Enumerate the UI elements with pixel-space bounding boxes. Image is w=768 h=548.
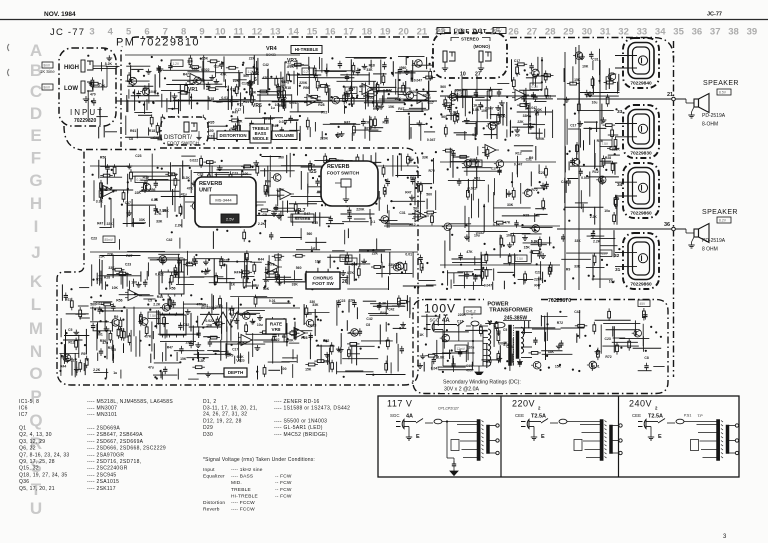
svg-text:C17: C17 — [242, 82, 248, 86]
svg-text:2.2K: 2.2K — [175, 224, 183, 228]
svg-text:31: 31 — [600, 27, 611, 38]
svg-text:10K: 10K — [481, 109, 488, 113]
svg-text:15K: 15K — [305, 368, 312, 372]
svg-text:560: 560 — [413, 207, 419, 211]
svg-text:0.047: 0.047 — [265, 117, 274, 121]
svg-text:R44: R44 — [373, 107, 379, 111]
svg-text:-- FCW: -- FCW — [275, 474, 292, 480]
svg-text:33K: 33K — [507, 203, 514, 207]
svg-text:0.2V: 0.2V — [457, 92, 464, 96]
svg-text:C23: C23 — [208, 134, 214, 138]
svg-text:C42: C42 — [263, 63, 269, 67]
svg-text:C17: C17 — [570, 123, 576, 127]
svg-text:R61: R61 — [474, 176, 480, 180]
svg-text:R47: R47 — [229, 308, 235, 312]
svg-text:R28: R28 — [523, 213, 529, 217]
svg-text:220K: 220K — [320, 136, 329, 140]
svg-text:45V: 45V — [347, 89, 354, 93]
svg-text:Distortion: Distortion — [203, 500, 225, 506]
svg-text:C5: C5 — [148, 298, 152, 302]
svg-text:32: 32 — [618, 27, 629, 38]
svg-text:---- GL-5AR1 (LED): ---- GL-5AR1 (LED) — [274, 425, 323, 431]
svg-text:L: L — [31, 295, 41, 314]
svg-text:560: 560 — [306, 312, 312, 316]
svg-text:---- 2SC945: ---- 2SC945 — [87, 472, 116, 478]
svg-text:100: 100 — [264, 279, 270, 283]
svg-text:INPUT: INPUT — [70, 108, 104, 117]
svg-text:22K: 22K — [324, 359, 331, 363]
svg-text:2.2K: 2.2K — [258, 222, 266, 226]
svg-text:R9: R9 — [515, 134, 519, 138]
svg-text:0.01: 0.01 — [269, 299, 276, 303]
svg-text:4.7K: 4.7K — [347, 271, 355, 275]
svg-text:-- FCW: -- FCW — [275, 493, 292, 499]
svg-text:PD-2519A: PD-2519A — [702, 113, 726, 119]
svg-text:CHORUS: CHORUS — [313, 275, 333, 280]
svg-text:4A: 4A — [406, 413, 413, 419]
svg-text:7.5V: 7.5V — [602, 142, 609, 146]
svg-text:Q6, 22: Q6, 22 — [19, 446, 36, 452]
svg-text:C42: C42 — [166, 238, 172, 242]
svg-text:10u: 10u — [469, 345, 475, 349]
svg-text:20: 20 — [398, 27, 409, 38]
svg-text:22K: 22K — [395, 97, 402, 101]
svg-text:---- 1kHz sine: ---- 1kHz sine — [231, 467, 263, 473]
svg-text:12mV: 12mV — [457, 347, 466, 351]
svg-text:4: 4 — [108, 27, 114, 38]
svg-text:K: K — [30, 272, 43, 291]
svg-text:R72: R72 — [323, 339, 329, 343]
svg-text:DISTORTION: DISTORTION — [220, 133, 247, 138]
svg-text:MS-3444: MS-3444 — [215, 198, 232, 203]
svg-text:R56: R56 — [169, 287, 175, 291]
svg-text:15K: 15K — [574, 78, 581, 82]
svg-text:400P: 400P — [466, 369, 475, 373]
svg-text:10K: 10K — [315, 259, 322, 263]
svg-text:R44: R44 — [60, 365, 66, 369]
svg-text:R56: R56 — [303, 86, 309, 90]
svg-text:15K: 15K — [236, 120, 243, 124]
svg-text:Q1: Q1 — [19, 426, 26, 432]
svg-text:---- FCCW: ---- FCCW — [231, 500, 255, 506]
svg-text:100: 100 — [208, 129, 214, 133]
svg-text:2.2K: 2.2K — [593, 239, 601, 243]
svg-text:C42: C42 — [574, 310, 580, 314]
svg-text:C23: C23 — [91, 237, 97, 241]
svg-text:15: 15 — [307, 27, 318, 38]
svg-text:M: M — [29, 319, 43, 338]
svg-text:R47: R47 — [167, 346, 173, 350]
svg-text:33: 33 — [637, 27, 648, 38]
svg-text:C42: C42 — [101, 188, 107, 192]
svg-text:33K: 33K — [156, 219, 163, 223]
svg-text:MIDDLE: MIDDLE — [252, 136, 268, 141]
svg-text:R56: R56 — [100, 156, 106, 160]
svg-text:---- M4C52 (BRIDGE): ---- M4C52 (BRIDGE) — [274, 432, 328, 438]
svg-text:---- 2SD667, 2SD669A: ---- 2SD667, 2SD669A — [87, 439, 144, 445]
svg-text:6: 6 — [254, 77, 257, 83]
svg-text:100K: 100K — [536, 137, 545, 141]
svg-text:R28: R28 — [104, 275, 110, 279]
svg-text:A: A — [30, 41, 42, 60]
svg-text:70229830: 70229830 — [630, 151, 652, 157]
svg-text:47K: 47K — [187, 186, 194, 190]
svg-text:3: 3 — [89, 27, 94, 38]
svg-text:C23: C23 — [230, 88, 236, 92]
svg-text:8-OHM: 8-OHM — [702, 122, 718, 128]
svg-text:HIGH: HIGH — [64, 65, 79, 71]
svg-text:100: 100 — [243, 172, 249, 176]
svg-text:10K: 10K — [506, 234, 513, 238]
svg-text:26: 26 — [342, 279, 348, 285]
svg-text:C5: C5 — [503, 328, 507, 332]
svg-text:1K: 1K — [419, 333, 424, 337]
svg-text:R72: R72 — [386, 88, 392, 92]
svg-text:---- 2SD666, 2SD668, 2SC2229: ---- 2SD666, 2SD668, 2SC2229 — [87, 446, 166, 452]
svg-text:0.022: 0.022 — [96, 302, 105, 306]
svg-text:FOOT SW: FOOT SW — [312, 281, 334, 286]
svg-text:7.5V: 7.5V — [150, 314, 157, 318]
svg-text:220K: 220K — [286, 339, 295, 343]
svg-text:C23: C23 — [339, 299, 345, 303]
svg-text:2.2K: 2.2K — [450, 111, 458, 115]
svg-text:RATE: RATE — [270, 321, 282, 326]
svg-text:33K: 33K — [108, 266, 115, 270]
svg-text:---- 2SK117: ---- 2SK117 — [87, 486, 116, 492]
svg-text:30: 30 — [582, 27, 593, 38]
svg-text:100K: 100K — [498, 114, 507, 118]
svg-text:-- FCW: -- FCW — [275, 480, 292, 486]
svg-text:R28: R28 — [301, 336, 307, 340]
svg-text:R72: R72 — [96, 277, 102, 281]
svg-text:R56: R56 — [265, 180, 271, 184]
svg-text:8 OHM: 8 OHM — [702, 247, 718, 253]
svg-text:1u: 1u — [113, 371, 117, 375]
svg-text:R47: R47 — [232, 110, 238, 114]
svg-text:STEREO: STEREO — [461, 37, 480, 42]
svg-text:22K: 22K — [135, 191, 142, 195]
svg-text:PM 70229810: PM 70229810 — [116, 37, 200, 49]
svg-text:34: 34 — [617, 182, 623, 188]
svg-text:21: 21 — [667, 92, 673, 98]
svg-text:0.022: 0.022 — [279, 120, 288, 124]
svg-text:3.3K: 3.3K — [274, 258, 282, 262]
svg-text:TRANSFORMER: TRANSFORMER — [489, 308, 533, 314]
svg-text:I: I — [34, 217, 39, 236]
svg-text:0.022: 0.022 — [201, 68, 210, 72]
svg-text:R9: R9 — [566, 268, 570, 272]
svg-text:R9: R9 — [81, 352, 85, 356]
svg-text:P.S1: P.S1 — [684, 414, 691, 418]
svg-text:30V x 2 @2.0A: 30V x 2 @2.0A — [444, 387, 480, 393]
svg-text:10: 10 — [460, 72, 466, 78]
svg-text:FOOT SWITCH: FOOT SWITCH — [327, 171, 360, 176]
svg-text:4.7K: 4.7K — [154, 212, 162, 216]
svg-text:---- MN3101: ---- MN3101 — [87, 412, 117, 418]
svg-text:REVERB: REVERB — [199, 181, 222, 187]
svg-text:C17: C17 — [125, 201, 131, 205]
svg-text:22K: 22K — [107, 252, 114, 256]
svg-text:R28: R28 — [605, 156, 611, 160]
svg-text:R72: R72 — [557, 321, 563, 325]
svg-text:R9: R9 — [535, 112, 539, 116]
svg-text:R12: R12 — [592, 170, 598, 174]
svg-text:R47: R47 — [534, 283, 540, 287]
svg-text:T.P: T.P — [487, 320, 493, 324]
svg-text:70229820: 70229820 — [74, 118, 96, 124]
svg-text:R35: R35 — [410, 176, 416, 180]
svg-text:C17: C17 — [232, 347, 238, 351]
svg-text:R35: R35 — [208, 121, 214, 125]
svg-text:C42: C42 — [561, 180, 567, 184]
svg-text:47u: 47u — [181, 192, 187, 196]
svg-text:*Signal Voltage (rms) Taken Un: *Signal Voltage (rms) Taken Under Condit… — [203, 457, 315, 463]
svg-text:10K: 10K — [582, 64, 589, 68]
svg-text:22K: 22K — [249, 57, 256, 61]
svg-text:HI-TREBLE: HI-TREBLE — [231, 493, 258, 499]
svg-text:47K: 47K — [504, 220, 511, 224]
svg-text:R44: R44 — [272, 124, 278, 128]
svg-text:35: 35 — [614, 196, 620, 202]
svg-text:R47: R47 — [234, 271, 240, 275]
svg-text:0.047: 0.047 — [484, 284, 493, 288]
svg-text:47u: 47u — [253, 284, 259, 288]
svg-text:---- S5500 or 1N4003: ---- S5500 or 1N4003 — [274, 418, 327, 424]
svg-text:LOW: LOW — [64, 86, 78, 92]
svg-text:0.022: 0.022 — [468, 187, 477, 191]
svg-text:33K: 33K — [139, 218, 146, 222]
svg-text:C23: C23 — [197, 173, 203, 177]
svg-text:U: U — [30, 499, 42, 518]
svg-text:560: 560 — [475, 274, 481, 278]
svg-text:15K: 15K — [185, 341, 192, 345]
svg-text:31: 31 — [615, 267, 621, 273]
svg-text:D29: D29 — [203, 425, 213, 431]
svg-text:C8: C8 — [129, 137, 133, 141]
svg-text:25: 25 — [311, 169, 317, 175]
svg-text:PD-2519A: PD-2519A — [702, 238, 726, 244]
svg-text:1u: 1u — [311, 246, 315, 250]
svg-text:24, 26, 27, 31, 32: 24, 26, 27, 31, 32 — [203, 411, 247, 417]
svg-text:560: 560 — [401, 66, 407, 70]
svg-text:HI-TREBLE: HI-TREBLE — [295, 47, 318, 52]
svg-text:IC6: IC6 — [19, 405, 28, 411]
svg-text:---- 2SC2240GR: ---- 2SC2240GR — [87, 466, 128, 472]
svg-text:1.2V: 1.2V — [347, 260, 354, 264]
svg-text:117 V: 117 V — [387, 399, 412, 409]
svg-text:0.047: 0.047 — [581, 176, 590, 180]
svg-text:Secondary Winding Ratings (DC): Secondary Winding Ratings (DC): — [443, 380, 521, 386]
svg-text:C17: C17 — [491, 166, 497, 170]
svg-text:560: 560 — [90, 303, 96, 307]
svg-text:10u: 10u — [368, 96, 374, 100]
svg-text:10u: 10u — [604, 209, 610, 213]
svg-text:H: H — [30, 194, 42, 213]
svg-text:22K: 22K — [107, 222, 114, 226]
svg-text:N: N — [30, 342, 42, 361]
svg-text:34: 34 — [655, 27, 666, 38]
svg-text:C19: C19 — [466, 364, 472, 368]
svg-text:C8: C8 — [365, 121, 369, 125]
svg-text:R56: R56 — [100, 339, 106, 343]
svg-text:NOV. 1984: NOV. 1984 — [44, 11, 76, 18]
svg-text:R72: R72 — [65, 298, 71, 302]
svg-text:18: 18 — [362, 27, 373, 38]
svg-text:CP1,CP2/127: CP1,CP2/127 — [438, 406, 459, 410]
svg-text:Q9, 17, 25, 28: Q9, 17, 25, 28 — [19, 459, 55, 465]
svg-text:45V: 45V — [472, 162, 479, 166]
svg-text:0.022: 0.022 — [190, 158, 199, 162]
svg-text:0.01: 0.01 — [221, 96, 228, 100]
svg-text:1K: 1K — [473, 104, 478, 108]
svg-text:R56: R56 — [116, 298, 122, 302]
svg-text:DEPTH: DEPTH — [228, 370, 244, 375]
svg-text:LINE OUT: LINE OUT — [454, 29, 487, 35]
svg-text:330: 330 — [187, 60, 193, 64]
svg-text:36: 36 — [692, 27, 703, 38]
svg-text:1K: 1K — [503, 341, 508, 345]
svg-text:0.047: 0.047 — [529, 106, 538, 110]
svg-text:50KB: 50KB — [266, 52, 276, 57]
svg-text:8.5V: 8.5V — [719, 91, 727, 95]
svg-text:19: 19 — [380, 27, 391, 38]
svg-text:C23: C23 — [135, 154, 141, 158]
svg-text:100: 100 — [192, 67, 198, 71]
svg-text:E: E — [541, 434, 545, 440]
svg-text:R72: R72 — [321, 111, 327, 115]
svg-text:---- 2SD716, 2SD718,: ---- 2SD716, 2SD718, — [87, 459, 141, 465]
svg-text:---- BASS: ---- BASS — [231, 474, 253, 480]
svg-text:470: 470 — [263, 76, 269, 80]
svg-text:D1, 2: D1, 2 — [203, 399, 216, 405]
svg-text:R61: R61 — [545, 95, 551, 99]
svg-text:70229860: 70229860 — [630, 282, 652, 288]
svg-text:C23: C23 — [125, 263, 131, 267]
svg-text:FOOT SWITCH: FOOT SWITCH — [167, 141, 199, 146]
svg-text:R44: R44 — [258, 258, 264, 262]
svg-text:29: 29 — [563, 27, 574, 38]
svg-text:0.1: 0.1 — [371, 220, 376, 224]
svg-text:---- 2SD669A: ---- 2SD669A — [87, 426, 120, 432]
svg-text:C31: C31 — [592, 57, 598, 61]
svg-text:14: 14 — [288, 27, 299, 38]
svg-text:10K: 10K — [233, 79, 240, 83]
svg-text:6.8K: 6.8K — [151, 198, 159, 202]
svg-text:JC-77: JC-77 — [707, 12, 722, 18]
svg-text:R47: R47 — [183, 73, 189, 77]
svg-text:G: G — [29, 171, 42, 190]
svg-text:-- FCW: -- FCW — [275, 487, 292, 493]
svg-text:Q18, 19, 27, 34, 35: Q18, 19, 27, 34, 35 — [19, 472, 68, 478]
svg-text:R28: R28 — [318, 103, 324, 107]
svg-text:R12: R12 — [515, 152, 521, 156]
svg-text:6.8K: 6.8K — [249, 91, 257, 95]
svg-text:C23: C23 — [605, 337, 611, 341]
svg-text:D12, 19, 22, 28: D12, 19, 22, 28 — [203, 418, 242, 424]
svg-text:240V: 240V — [629, 399, 652, 409]
svg-text:33K: 33K — [523, 114, 530, 118]
svg-text:0.01: 0.01 — [118, 327, 125, 331]
svg-text:CEE: CEE — [632, 413, 641, 418]
svg-text:Reverb: Reverb — [203, 507, 220, 513]
svg-text:33K: 33K — [422, 156, 429, 160]
svg-text:47u: 47u — [148, 366, 154, 370]
svg-text:100: 100 — [281, 367, 287, 371]
svg-text:CEE: CEE — [515, 413, 524, 418]
svg-text:50-320Hz: 50-320Hz — [201, 306, 217, 310]
svg-text:1.2V: 1.2V — [248, 70, 255, 74]
svg-text:11: 11 — [234, 27, 245, 38]
svg-text:33K: 33K — [312, 303, 319, 307]
svg-text:Q15, 32: Q15, 32 — [19, 466, 39, 472]
svg-text:---- 2SB647, 2SB649A: ---- 2SB647, 2SB649A — [87, 432, 143, 438]
svg-text:33K: 33K — [366, 68, 373, 72]
svg-text:C23: C23 — [535, 271, 541, 275]
svg-text:R18: R18 — [285, 86, 291, 90]
svg-text:0.2V: 0.2V — [137, 178, 144, 182]
svg-text:C5: C5 — [263, 213, 267, 217]
svg-text:10: 10 — [215, 27, 226, 38]
svg-text:C31: C31 — [399, 211, 405, 215]
svg-text:SPEAKER: SPEAKER — [702, 209, 738, 216]
svg-text:R61: R61 — [130, 129, 136, 133]
svg-text:85mV: 85mV — [105, 238, 114, 242]
svg-text:R18: R18 — [369, 63, 375, 67]
svg-text:10u: 10u — [592, 100, 598, 104]
svg-text:28: 28 — [545, 27, 556, 38]
svg-text:8mV: 8mV — [44, 86, 51, 90]
svg-text:470: 470 — [90, 93, 96, 97]
svg-text:Q: Q — [29, 411, 42, 430]
svg-text:---- 1S1588 or 1S2473, DS442: ---- 1S1588 or 1S2473, DS442 — [274, 405, 350, 411]
svg-text:0.047: 0.047 — [431, 366, 440, 370]
svg-text:R72: R72 — [429, 169, 435, 173]
svg-text:R18: R18 — [383, 120, 389, 124]
svg-text:C42: C42 — [153, 136, 159, 140]
svg-text:15K: 15K — [388, 105, 395, 109]
svg-text:36: 36 — [664, 222, 670, 228]
svg-text:---- ZENER RD-16: ---- ZENER RD-16 — [274, 399, 320, 405]
svg-text:70229870: 70229870 — [548, 298, 571, 304]
svg-text:220K: 220K — [356, 207, 365, 211]
svg-text:R28: R28 — [247, 82, 253, 86]
svg-text:12: 12 — [252, 27, 263, 38]
svg-text:47K: 47K — [365, 126, 372, 130]
svg-text:0.047: 0.047 — [289, 101, 298, 105]
svg-text:10K: 10K — [206, 324, 213, 328]
svg-text:560: 560 — [441, 115, 447, 119]
svg-text:R44: R44 — [380, 311, 386, 315]
svg-text:21: 21 — [417, 27, 428, 38]
svg-text:Q7, 8-16, 23, 24, 33: Q7, 8-16, 23, 24, 33 — [19, 452, 69, 458]
svg-text:---- MN3007: ---- MN3007 — [87, 405, 117, 411]
svg-text:R12: R12 — [68, 341, 74, 345]
svg-text:UNIT: UNIT — [199, 188, 213, 194]
svg-text:R35: R35 — [312, 221, 318, 225]
svg-text:Input: Input — [203, 467, 215, 473]
svg-text:15K: 15K — [555, 365, 562, 369]
svg-text:T2.5A: T2.5A — [648, 413, 663, 419]
svg-text:VR8: VR8 — [272, 327, 281, 332]
svg-text:32: 32 — [614, 253, 620, 259]
svg-text:C17: C17 — [214, 65, 220, 69]
svg-text:Q2, 4, 13, 30: Q2, 4, 13, 30 — [19, 432, 52, 438]
svg-text:50KB: 50KB — [288, 64, 297, 68]
svg-text:SPEAKER: SPEAKER — [703, 80, 739, 87]
svg-text:Q3, 12, 29: Q3, 12, 29 — [19, 439, 45, 445]
svg-text:6.8K: 6.8K — [531, 239, 539, 243]
svg-text:560: 560 — [440, 85, 446, 89]
